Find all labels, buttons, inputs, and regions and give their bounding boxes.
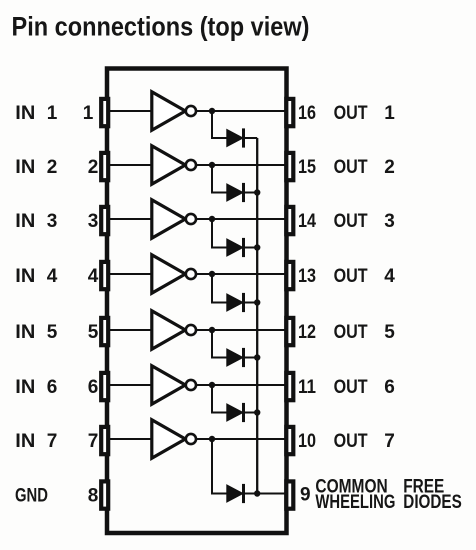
node junction channel 4 output — [209, 271, 215, 277]
label OUT 1 — [334, 103, 396, 124]
pin 16 stub — [286, 99, 293, 126]
pin 5 stub — [101, 318, 108, 345]
wire output channel 7 (inverter to pin 10) — [196, 438, 285, 440]
pin 15 stub — [286, 153, 293, 180]
IC body outline — [107, 69, 287, 534]
svg-text:8: 8 — [88, 486, 99, 507]
svg-text:3: 3 — [47, 211, 58, 232]
svg-text:16: 16 — [298, 103, 316, 124]
svg-text:IN: IN — [15, 322, 35, 343]
svg-text:5: 5 — [47, 322, 58, 343]
label IN 1 — [15, 103, 57, 124]
svg-text:OUT: OUT — [334, 377, 368, 398]
node bus junction diode D7 — [254, 490, 260, 496]
svg-text:DIODES: DIODES — [403, 492, 462, 513]
svg-text:7: 7 — [88, 431, 99, 452]
node junction channel 5 output — [209, 327, 215, 333]
pin 2 stub — [101, 153, 108, 180]
pin 12 stub — [286, 318, 293, 345]
pin 1 stub — [101, 99, 108, 126]
inverter channel 4 — [152, 255, 196, 293]
wire channel 1 output to diode D1 anode — [212, 111, 227, 138]
wire input channel 6 (pin 6 to inverter) — [110, 384, 151, 386]
pin 3 stub — [101, 207, 108, 234]
svg-text:OUT: OUT — [334, 103, 368, 124]
wire channel 2 output to diode D2 anode — [212, 165, 227, 193]
label COMMON FREE WHEELING DIODES — [315, 476, 461, 513]
label IN 7 — [15, 431, 57, 452]
wire diode D6 cathode to bus — [244, 412, 258, 414]
node bus junction diode D5 — [254, 354, 260, 360]
svg-text:4: 4 — [384, 266, 395, 287]
node junction channel 7 output — [209, 436, 215, 442]
svg-text:1: 1 — [83, 103, 94, 124]
label IN 5 — [15, 322, 57, 343]
inverter channel 7 — [152, 420, 196, 458]
wire diode D4 cathode to bus — [244, 302, 258, 304]
pin 9 stub — [286, 481, 293, 508]
label OUT 5 — [334, 322, 396, 343]
wire input channel 5 (pin 5 to inverter) — [110, 329, 151, 331]
svg-text:10: 10 — [298, 431, 316, 452]
pin 8 stub — [101, 481, 108, 508]
svg-text:OUT: OUT — [334, 211, 368, 232]
svg-text:OUT: OUT — [334, 322, 368, 343]
svg-text:IN: IN — [15, 431, 35, 452]
svg-text:7: 7 — [47, 431, 58, 452]
wire output channel 4 (inverter to pin 13) — [196, 273, 285, 275]
node bus junction diode D6 — [254, 409, 260, 415]
svg-text:6: 6 — [88, 377, 99, 398]
inverter channel 2 — [152, 146, 196, 184]
wire diode D1 cathode to bus — [244, 137, 258, 139]
diode D5 — [227, 348, 244, 367]
node bus junction diode D2 — [254, 189, 260, 195]
node bus junction diode D4 — [254, 299, 260, 305]
svg-text:IN: IN — [15, 377, 35, 398]
wire common diode bus (to pin 9) — [256, 138, 258, 494]
inverter channel 3 — [152, 200, 196, 238]
svg-text:IN: IN — [15, 211, 35, 232]
wire channel 7 output to diode D7 anode — [212, 439, 227, 494]
pin 11 stub — [286, 373, 293, 400]
node junction channel 1 output — [209, 108, 215, 114]
svg-text:2: 2 — [88, 157, 99, 178]
svg-text:2: 2 — [47, 157, 58, 178]
node junction channel 2 output — [209, 162, 215, 168]
wire diode D7 cathode to bus — [244, 493, 258, 495]
wire output channel 5 (inverter to pin 12) — [196, 329, 285, 331]
inverter channel 1 — [152, 92, 196, 130]
diode D6 — [227, 403, 244, 422]
svg-text:1: 1 — [384, 103, 395, 124]
wire input channel 3 (pin 3 to inverter) — [110, 218, 151, 220]
svg-text:5: 5 — [384, 322, 395, 343]
wire channel 5 output to diode D5 anode — [212, 330, 227, 358]
wire diode D2 cathode to bus — [244, 192, 258, 194]
svg-text:IN: IN — [15, 157, 35, 178]
svg-text:14: 14 — [298, 211, 316, 232]
node bus junction diode D3 — [254, 244, 260, 250]
node junction channel 3 output — [209, 216, 215, 222]
diode D2 — [227, 183, 244, 202]
svg-text:2: 2 — [384, 157, 395, 178]
svg-text:15: 15 — [298, 157, 316, 178]
wire channel 6 output to diode D6 anode — [212, 385, 227, 413]
pin 4 stub — [101, 262, 108, 289]
svg-text:9: 9 — [300, 485, 311, 506]
label IN 6 — [15, 377, 57, 398]
svg-text:3: 3 — [384, 211, 395, 232]
pin 7 stub — [101, 427, 108, 454]
label OUT 6 — [334, 377, 395, 398]
inverter channel 6 — [152, 366, 196, 404]
pin 14 stub — [286, 207, 293, 234]
diode D4 — [227, 293, 244, 312]
wire output channel 6 (inverter to pin 11) — [196, 384, 285, 386]
diode D1 — [227, 128, 244, 147]
wire input channel 7 (pin 7 to inverter) — [110, 438, 151, 440]
svg-text:OUT: OUT — [334, 266, 368, 287]
svg-text:Pin connections (top view): Pin connections (top view) — [12, 11, 310, 41]
svg-text:6: 6 — [384, 377, 395, 398]
svg-text:IN: IN — [15, 266, 35, 287]
wire output channel 3 (inverter to pin 14) — [196, 218, 285, 220]
svg-text:WHEELING: WHEELING — [315, 492, 395, 513]
wire channel 4 output to diode D4 anode — [212, 274, 227, 303]
svg-text:4: 4 — [88, 266, 99, 287]
svg-text:11: 11 — [298, 377, 316, 398]
wire diode D3 cathode to bus — [244, 247, 258, 249]
inverter channel 5 — [152, 311, 196, 349]
pin 13 stub — [286, 262, 293, 289]
svg-text:OUT: OUT — [334, 157, 368, 178]
pin 10 stub — [286, 427, 293, 454]
label OUT 7 — [334, 431, 395, 452]
label OUT 4 — [334, 266, 396, 287]
wire output channel 1 (inverter to pin 16) — [196, 110, 285, 112]
diode D7 — [227, 484, 244, 503]
label IN 4 — [15, 266, 57, 287]
label OUT 3 — [334, 211, 395, 232]
wire diode D5 cathode to bus — [244, 357, 258, 359]
svg-text:GND: GND — [15, 486, 48, 507]
wire input channel 1 (pin 1 to inverter) — [110, 110, 151, 112]
pin 6 stub — [101, 373, 108, 400]
svg-text:1: 1 — [47, 103, 58, 124]
wire input channel 2 (pin 2 to inverter) — [110, 164, 151, 166]
svg-text:OUT: OUT — [334, 431, 368, 452]
diode D3 — [227, 238, 244, 257]
svg-text:12: 12 — [298, 322, 316, 343]
svg-text:7: 7 — [384, 431, 395, 452]
wire input channel 4 (pin 4 to inverter) — [110, 273, 151, 275]
svg-text:6: 6 — [47, 377, 58, 398]
svg-text:13: 13 — [298, 266, 316, 287]
label IN 2 — [15, 157, 57, 178]
wire channel 3 output to diode D3 anode — [212, 219, 227, 248]
svg-text:IN: IN — [15, 103, 35, 124]
svg-text:5: 5 — [88, 322, 99, 343]
wire output channel 2 (inverter to pin 15) — [196, 164, 285, 166]
svg-text:3: 3 — [88, 211, 99, 232]
node junction channel 6 output — [209, 382, 215, 388]
label OUT 2 — [334, 157, 395, 178]
wire bus to pin 9 — [257, 493, 285, 495]
svg-text:4: 4 — [47, 266, 58, 287]
label IN 3 — [15, 211, 57, 232]
